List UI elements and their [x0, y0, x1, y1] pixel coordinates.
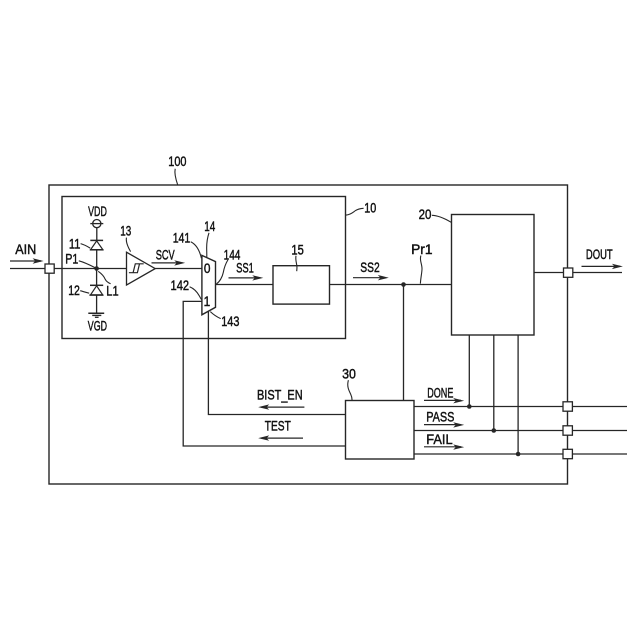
- label 143: [210, 312, 239, 329]
- svg-text:Pr1: Pr1: [411, 241, 433, 257]
- block 30: [346, 401, 415, 460]
- wire block 15 to block 20, SS2 arrow: [330, 259, 452, 284]
- svg-text:11: 11: [69, 235, 81, 251]
- label 141: [173, 230, 202, 259]
- svg-text:10: 10: [364, 199, 376, 215]
- schmitt buffer 13: [127, 252, 156, 285]
- label BIST_EN arrow: [257, 386, 304, 410]
- svg-text:VGD: VGD: [88, 318, 107, 334]
- svg-text:143: 143: [221, 313, 239, 329]
- terminal AIN: [45, 264, 54, 273]
- inner block 10: [62, 197, 346, 339]
- svg-text:BIST_EN: BIST_EN: [257, 386, 303, 402]
- label L1 leader: [98, 271, 119, 298]
- wire BIST_EN block30 to mux select: [208, 311, 345, 414]
- svg-text:0: 0: [204, 260, 211, 276]
- svg-text:30: 30: [342, 365, 356, 381]
- label 142: [171, 277, 202, 299]
- terminal DOUT: [564, 268, 573, 277]
- DOUT output arrow: [582, 246, 623, 269]
- junction DONE: [467, 404, 472, 409]
- wire FAIL: [414, 453, 627, 455]
- svg-text:FAIL: FAIL: [426, 431, 453, 447]
- svg-text:P1: P1: [65, 251, 78, 267]
- svg-text:DONE: DONE: [427, 384, 453, 400]
- svg-text:1: 1: [204, 293, 211, 309]
- svg-text:SS1: SS1: [236, 259, 254, 275]
- wire block20 down to PASS: [493, 335, 495, 431]
- power VDD symbol: [88, 203, 107, 240]
- svg-text:SS2: SS2: [360, 259, 380, 275]
- ground VGD: [88, 313, 107, 334]
- svg-text:SCV: SCV: [156, 246, 175, 262]
- mux 14: [202, 255, 216, 314]
- label 14: [204, 218, 215, 257]
- junction PASS: [492, 428, 497, 433]
- node P1: [94, 266, 99, 271]
- label PASS arrow: [424, 409, 464, 428]
- wire block20 down to DONE: [468, 335, 470, 407]
- label 12: [68, 282, 89, 298]
- diode 12: [89, 285, 103, 313]
- node Pr1: [401, 282, 406, 287]
- svg-text:13: 13: [120, 222, 131, 238]
- wire PASS: [414, 430, 627, 432]
- label 13: [120, 222, 131, 251]
- svg-text:DOUT: DOUT: [586, 246, 613, 262]
- outer block 100: [49, 185, 568, 484]
- svg-text:12: 12: [68, 282, 80, 298]
- terminal DONE: [563, 402, 572, 411]
- wire schmitt to mux, SCV arrow: [152, 246, 202, 268]
- svg-text:L1: L1: [106, 283, 118, 299]
- label FAIL arrow: [424, 431, 464, 450]
- diode 11: [90, 240, 104, 266]
- label P1: [65, 251, 95, 268]
- wire Pr1 down to block 30: [403, 285, 405, 401]
- label 30: [342, 365, 356, 400]
- svg-text:20: 20: [419, 206, 432, 222]
- label 20: [419, 206, 452, 222]
- label 15: [291, 241, 304, 271]
- label TEST arrow: [258, 418, 303, 441]
- terminal FAIL: [563, 449, 572, 458]
- AIN input arrow: [10, 241, 44, 264]
- svg-text:142: 142: [171, 277, 190, 293]
- label 144: [216, 247, 240, 284]
- svg-text:141: 141: [173, 230, 191, 246]
- svg-text:AIN: AIN: [15, 241, 36, 257]
- wire AIN to P1 node and schmitt input: [10, 268, 127, 270]
- svg-text:VDD: VDD: [88, 203, 107, 219]
- svg-text:100: 100: [168, 153, 186, 169]
- label 11: [69, 235, 90, 251]
- label DONE arrow: [424, 384, 464, 403]
- label 10: [345, 199, 376, 215]
- wire mux out to block 15, SS1 arrow: [216, 259, 274, 284]
- wire TEST block30 to mux input 1: [183, 301, 345, 446]
- svg-text:TEST: TEST: [265, 418, 291, 434]
- wire block20 to DOUT terminal: [534, 272, 622, 274]
- svg-text:15: 15: [291, 241, 304, 257]
- label 100: [168, 153, 186, 185]
- block 20: [452, 215, 535, 336]
- svg-text:PASS: PASS: [426, 409, 454, 425]
- wire block20 down to FAIL: [517, 335, 519, 454]
- block 15: [273, 266, 330, 304]
- wire P1 to diode 12: [96, 269, 98, 286]
- label Pr1: [411, 241, 433, 284]
- wire DONE: [414, 406, 627, 408]
- svg-text:14: 14: [204, 218, 215, 234]
- junction FAIL: [516, 452, 521, 457]
- terminal PASS: [563, 426, 572, 435]
